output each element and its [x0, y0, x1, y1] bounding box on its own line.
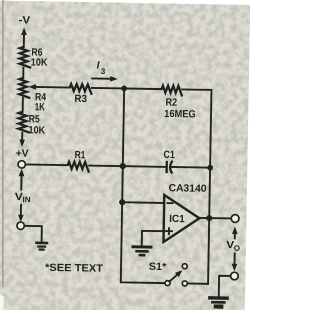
switch S1 right contact: [182, 281, 187, 286]
svg-text:R2: R2: [165, 96, 177, 108]
potentiometer R4: [19, 78, 30, 98]
svg-text:-V: -V: [18, 14, 30, 26]
svg-text:CA3140: CA3140: [168, 182, 206, 195]
wire: R2 to right rail corner: [181, 89, 212, 167]
switch S1 left contact: [165, 281, 170, 286]
R4 wiper arrow: [35, 86, 69, 89]
resistor R1: [67, 162, 89, 173]
switch S1 top throw contact: [182, 264, 187, 269]
svg-text:10K: 10K: [28, 124, 45, 136]
ground: op-amp + input: [132, 245, 153, 248]
svg-text:O: O: [234, 244, 240, 253]
wire: Vo bottom terminal to ground: [219, 276, 231, 298]
wire: inverting input into op-amp: [122, 201, 164, 204]
Vo arrow down: [233, 253, 235, 265]
capacitor C1: [165, 161, 168, 173]
svg-text:R1: R1: [75, 149, 86, 161]
svg-text:IN: IN: [23, 195, 31, 204]
svg-text:*SEE TEXT: *SEE TEXT: [45, 262, 104, 275]
wire: R1 to mid node: [89, 165, 123, 168]
wire: left rail bottom segment to +V arrow: [21, 133, 23, 140]
svg-text:16MEG: 16MEG: [164, 108, 196, 121]
wire: op-amp output to right rail node: [199, 217, 209, 219]
svg-text:C1: C1: [164, 149, 175, 161]
Vin up arrow (below top terminal): [19, 169, 25, 177]
schematic (rotated like the scan): [13, 14, 244, 307]
wire: mid rail (summing node down to inverting input): [122, 88, 124, 202]
svg-text:S1*: S1*: [149, 261, 168, 273]
Vo arrow up: [234, 232, 236, 238]
scan edge shadow line at left: [2, 0, 4, 287]
op-amp IC1 triangle: [163, 195, 199, 243]
node: inverting input branch: [119, 199, 125, 205]
op-amp inverting pin mark: [167, 202, 172, 204]
wire: mid node to C1: [123, 165, 166, 168]
wire: output node to Vo terminal: [209, 217, 231, 219]
scanned page background: [0, 1, 250, 310]
wire: left rail between R4 and R5: [22, 98, 24, 112]
svg-text:R3: R3: [74, 93, 87, 105]
terminal: Vo bottom (open circle): [231, 272, 239, 280]
ground: output: [208, 296, 229, 300]
wire: mid rail down to switch S1: [121, 202, 166, 283]
svg-text:IC1: IC1: [169, 213, 185, 225]
wire: R3 to summing node: [92, 87, 124, 90]
wire: C1 to right rail: [171, 166, 210, 169]
Vin down arrow (to bottom terminal): [20, 205, 22, 217]
svg-text:+V: +V: [16, 147, 29, 159]
wire: non-inverting input to ground: [142, 231, 164, 247]
wire: Vin bottom terminal to ground: [24, 226, 42, 243]
node: summing junction top: [121, 86, 127, 92]
terminal: Vo top (open circle): [231, 215, 239, 223]
svg-text:1K: 1K: [35, 101, 46, 113]
terminal: Vin bottom (open circle): [17, 222, 25, 230]
switch S1 arm with arrow: [169, 273, 178, 281]
svg-text:3: 3: [101, 67, 106, 76]
I3 current arrow: [92, 77, 112, 79]
power +V arrow: [19, 140, 25, 148]
svg-text:10K: 10K: [31, 57, 48, 69]
power -V arrow: [21, 27, 27, 35]
op-amp non-inverting pin mark: [166, 228, 172, 234]
wire: left rail between R6 and R4: [22, 68, 24, 78]
wire: top node to R2: [124, 87, 161, 90]
wire: Vin terminal to R1: [25, 163, 67, 166]
bottom-left white corner: [0, 294, 4, 310]
wire: left rail top segment (-V arrow to R6): [23, 31, 25, 47]
resistor R5: [18, 112, 30, 133]
resistor R2: [161, 86, 182, 97]
resistor R3: [70, 84, 92, 95]
resistor R6: [20, 47, 32, 68]
wire: right rail output node down to switch: [187, 167, 210, 284]
ground: Vin: [35, 242, 48, 245]
terminal: Vin top (open circle): [18, 161, 26, 169]
node: output junction: [206, 215, 212, 221]
node: mid rail / row2 junction: [120, 163, 126, 169]
node: C1 / right rail junction: [207, 165, 213, 171]
